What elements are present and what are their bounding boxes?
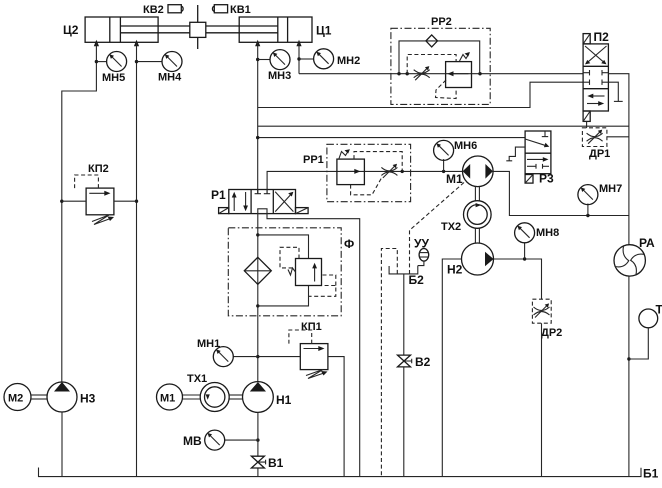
svg-text:В1: В1 — [268, 456, 284, 470]
node МН4 tap — [135, 60, 138, 63]
fan/cooler РА — [614, 236, 655, 276]
wire long line from Р1 riser to right drop (y=126) — [258, 125, 629, 127]
node МН6 tap — [442, 170, 445, 173]
wire МН2 stub — [299, 58, 314, 60]
svg-text:МН5: МН5 — [102, 72, 125, 84]
wire Н2 discharge to ДР2 — [494, 259, 542, 299]
wire П2 right port to right-side main drop — [608, 74, 629, 245]
svg-text:РР2: РР2 — [431, 16, 452, 28]
shut-off valve В2 — [398, 355, 431, 369]
cylinder Ц2 — [63, 17, 190, 42]
check valve in РР2 bypass — [426, 35, 438, 47]
filter unit Ф (dash-dot enclosure) — [228, 228, 354, 316]
svg-text:П2: П2 — [594, 30, 610, 44]
node РР2 bypass right — [478, 72, 481, 75]
wire МН7 stub — [587, 204, 589, 216]
wire main pressure line Ц1/МН2 to РР2 to П2 — [299, 73, 583, 75]
wire Ф bypass loop — [258, 235, 309, 306]
svg-text:Н3: Н3 — [80, 392, 96, 406]
filter element (diamond) — [244, 257, 271, 284]
gauge МН5 — [102, 52, 127, 85]
electric motor М2 — [4, 384, 31, 411]
svg-text:МН6: МН6 — [454, 140, 477, 152]
svg-text:ТХ1: ТХ1 — [187, 373, 207, 385]
svg-text:МН1: МН1 — [197, 338, 220, 350]
wire right drop below fan to tank line — [628, 276, 630, 477]
node Ф bypass top — [256, 233, 259, 236]
valve П2 — [583, 30, 609, 121]
svg-text:ТХ2: ТХ2 — [441, 221, 461, 233]
wire Р1 pressure port down through Ф to Н1 — [257, 214, 259, 382]
svg-text:ДР1: ДР1 — [589, 148, 610, 160]
throttle ДР1 (dashed box) — [582, 128, 610, 160]
wire Ц2 left port down-left to Н3 riser — [62, 40, 99, 382]
hydraulic motor М1 — [446, 156, 493, 187]
node МН7 tap — [586, 214, 589, 217]
throttle ДР2 (dashed box) — [532, 299, 562, 339]
gauge МН8 — [515, 223, 560, 243]
svg-text:МВ: МВ — [183, 434, 202, 448]
svg-text:РА: РА — [639, 236, 655, 250]
crosshead block between cylinders — [190, 5, 206, 49]
svg-text:М2: М2 — [8, 393, 23, 405]
tank Б2 — [389, 266, 424, 287]
pilot dashed lines РР2 — [407, 55, 456, 99]
electric motor М1 — [157, 384, 201, 410]
thermometer Т — [629, 303, 662, 360]
wire Р1 return port to tank drop — [267, 214, 360, 477]
svg-text:МН2: МН2 — [337, 55, 360, 67]
wire В2 to tank line — [403, 367, 405, 477]
svg-text:МН8: МН8 — [536, 227, 559, 239]
svg-text:Р1: Р1 — [211, 188, 226, 202]
wire П2 bottom stub — [586, 121, 588, 128]
solenoid right of Р1 — [296, 208, 309, 214]
wire МН5 stub — [96, 61, 106, 63]
gauge МН1 — [197, 338, 233, 367]
wire МН3 branch: down, right, up to П2 second port — [258, 82, 583, 107]
shaft ТХ2 to Н2 — [475, 228, 479, 243]
gauge МН7 — [578, 183, 622, 205]
svg-text:М1: М1 — [160, 393, 175, 405]
wire ДР2 to tank line — [541, 323, 543, 476]
regulator block РР1 (dash-dot enclosure) — [303, 144, 411, 201]
wire МН1 stub — [233, 356, 258, 358]
limit switch КВ2 — [143, 4, 183, 16]
wire Н3 to tank line — [61, 412, 63, 477]
bypass valve in Ф — [288, 259, 322, 286]
svg-text:ДР2: ДР2 — [541, 327, 562, 339]
svg-text:МН3: МН3 — [268, 70, 291, 82]
solenoid left of Р1 — [219, 208, 229, 214]
vacuum gauge МВ — [183, 430, 225, 450]
pump Н2 — [447, 243, 494, 277]
wire КП2 connections — [62, 200, 137, 202]
svg-text:Т: Т — [656, 303, 662, 317]
gauge МН6 — [434, 140, 478, 160]
node МН5 tap — [95, 60, 98, 63]
wire Ц1 left port down to Р1 (main riser x=257.7) — [255, 40, 260, 194]
tank line Б1 (bottom return) — [39, 467, 659, 481]
svg-text:КВ1: КВ1 — [230, 4, 251, 16]
svg-text:Ц1: Ц1 — [316, 24, 332, 38]
gauge МН4 — [158, 52, 182, 84]
wire МН8 stub — [524, 242, 526, 259]
regulator block РР2 (dash-dot enclosure) — [391, 16, 490, 104]
pump Н1 — [243, 382, 292, 413]
wire КП1 outlet down to tank line — [328, 357, 344, 477]
wire МН6 stub — [443, 159, 445, 171]
pump Н3 — [47, 382, 96, 412]
coupling ТХ2 — [441, 187, 491, 233]
svg-text:Ц2: Ц2 — [63, 23, 79, 37]
gauge МН2 — [314, 49, 361, 69]
wire М1 right port down to cooler line — [493, 171, 629, 215]
wire Ц1 right port down to РР2 line — [296, 40, 301, 74]
node thermometer tap — [627, 357, 630, 360]
node Ф bypass bottom — [256, 304, 259, 307]
node КП2 left — [60, 200, 63, 203]
relief valve КП2 — [75, 163, 114, 225]
wire РР1/М1 main line from Р1 to М1 — [267, 171, 462, 194]
cylinder Ц1 — [206, 17, 332, 42]
svg-text:В2: В2 — [415, 355, 431, 369]
svg-text:КП1: КП1 — [301, 321, 322, 333]
svg-text:КВ2: КВ2 — [143, 4, 164, 16]
svg-text:Н2: Н2 — [447, 263, 463, 277]
wire МН4 stub — [137, 61, 163, 63]
node МН3 tap — [256, 58, 259, 61]
node КП2 right — [135, 200, 138, 203]
svg-text:КП2: КП2 — [88, 163, 109, 175]
svg-text:МН7: МН7 — [599, 183, 622, 195]
reducing valve РР2 — [446, 52, 472, 88]
shut-off valve В1 — [251, 456, 283, 470]
coupling ТХ1 — [187, 373, 243, 412]
node МН1 tap — [256, 355, 259, 358]
throttle in РР1 — [381, 164, 397, 178]
reducing valve РР1 — [337, 149, 365, 184]
wire long line 2 from Р1 riser to Р3 (y=137.6) — [258, 137, 525, 139]
node МН8 tap — [523, 257, 526, 260]
wire Н1 suction down through МВ tap to В1 and tank line — [257, 412, 259, 476]
pilot dashed boxes in Ф — [280, 247, 336, 296]
wire МВ stub — [224, 439, 258, 441]
node МН2 tap — [297, 57, 300, 60]
node РР2 pilot tap — [406, 72, 409, 75]
wire Ц2 right port long drop to tank line — [134, 40, 139, 477]
shaft М2 to Н3 — [31, 395, 47, 399]
level gauge УУ — [414, 237, 429, 266]
svg-text:Н1: Н1 — [276, 393, 292, 407]
wire КП1 inlet — [258, 356, 301, 358]
valve Р1 — [211, 188, 296, 214]
node long line 2 tap on riser — [256, 136, 259, 139]
wire МН3 stub — [258, 59, 270, 61]
node РР1 pilot junction — [401, 170, 404, 173]
node РР2 bypass left — [397, 72, 400, 75]
gauge МН3 — [268, 50, 291, 82]
relief valve КП1 — [289, 321, 328, 379]
wire Б2 drain pipe down — [403, 274, 405, 355]
wire РР2 bypass loop — [399, 41, 480, 74]
limit switch КВ1 — [212, 4, 250, 16]
svg-text:Б2: Б2 — [409, 273, 425, 287]
wire П2 drain with tank tick — [608, 82, 622, 101]
svg-text:РР1: РР1 — [303, 154, 324, 166]
wire ДР1 right to right drop — [607, 136, 629, 138]
drain dashed line into Б2 (from РР1 area) — [410, 183, 465, 274]
svg-text:М1: М1 — [446, 172, 463, 186]
svg-text:МН4: МН4 — [158, 72, 182, 84]
svg-text:Ф: Ф — [344, 237, 354, 251]
valve Р3 — [506, 131, 554, 186]
throttle in РР2 — [414, 66, 430, 80]
svg-text:Р3: Р3 — [539, 172, 554, 186]
node МВ tap — [256, 438, 259, 441]
svg-text:Б1: Б1 — [643, 467, 659, 481]
pilot dashed lines РР1 — [351, 152, 403, 195]
wire Н2 suction from tank line — [442, 259, 461, 477]
drain dashed elbow into Б2 — [381, 249, 397, 477]
